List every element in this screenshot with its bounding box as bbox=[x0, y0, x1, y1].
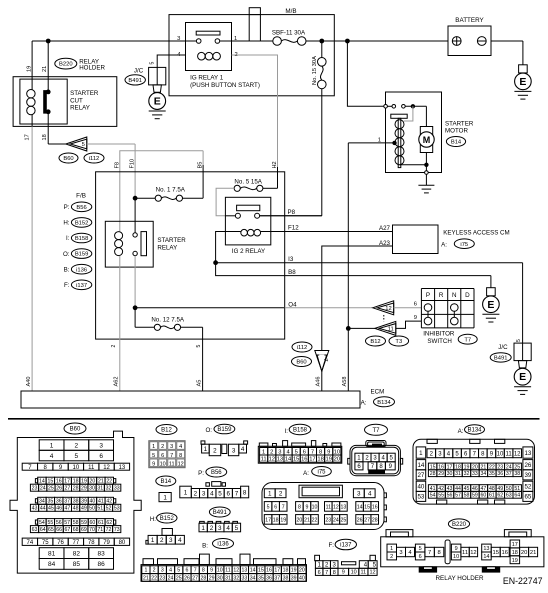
svg-text:54: 54 bbox=[39, 520, 45, 526]
svg-text:5: 5 bbox=[295, 449, 298, 455]
svg-text:63: 63 bbox=[32, 527, 38, 533]
svg-text:79: 79 bbox=[103, 540, 110, 546]
svg-text:40: 40 bbox=[417, 484, 424, 491]
svg-text:8: 8 bbox=[202, 568, 205, 574]
svg-text:58: 58 bbox=[464, 493, 470, 499]
svg-text:H2: H2 bbox=[272, 161, 278, 168]
svg-text:P8: P8 bbox=[288, 209, 296, 216]
svg-text:26: 26 bbox=[56, 486, 62, 492]
svg-text:5: 5 bbox=[516, 339, 522, 342]
svg-text:14: 14 bbox=[357, 504, 363, 510]
svg-text:64: 64 bbox=[40, 527, 46, 533]
svg-text:SWITCH: SWITCH bbox=[427, 338, 451, 345]
svg-text:10: 10 bbox=[217, 568, 223, 574]
svg-text:4: 4 bbox=[50, 453, 54, 460]
svg-text:19: 19 bbox=[26, 66, 32, 72]
svg-text:B152: B152 bbox=[75, 221, 89, 227]
svg-text:1: 1 bbox=[390, 546, 393, 552]
svg-text:R: R bbox=[439, 292, 444, 299]
svg-text:39: 39 bbox=[291, 575, 297, 581]
svg-text:ECM: ECM bbox=[371, 389, 385, 396]
svg-text:30: 30 bbox=[447, 471, 453, 477]
svg-text:4: 4 bbox=[169, 568, 172, 574]
svg-text:SBF-11 30A: SBF-11 30A bbox=[272, 29, 306, 36]
svg-text:6: 6 bbox=[419, 554, 422, 560]
svg-text:27: 27 bbox=[417, 472, 424, 479]
svg-text:26: 26 bbox=[524, 462, 531, 469]
svg-text:D: D bbox=[465, 292, 470, 299]
svg-text:14: 14 bbox=[250, 568, 256, 574]
svg-text:7: 7 bbox=[428, 550, 431, 556]
svg-text:B491: B491 bbox=[494, 356, 508, 362]
svg-text:2: 2 bbox=[111, 345, 117, 348]
svg-text:31: 31 bbox=[225, 575, 231, 581]
svg-text:19: 19 bbox=[81, 479, 87, 485]
svg-text:9: 9 bbox=[342, 570, 345, 576]
svg-text:2: 2 bbox=[210, 525, 214, 532]
svg-text:17: 17 bbox=[265, 517, 271, 523]
svg-text:J/C: J/C bbox=[134, 68, 144, 75]
svg-text:4: 4 bbox=[179, 444, 182, 450]
svg-text:H:: H: bbox=[63, 220, 69, 227]
svg-text:28: 28 bbox=[73, 486, 79, 492]
svg-text:26: 26 bbox=[357, 517, 363, 523]
svg-text:21: 21 bbox=[530, 550, 536, 556]
svg-text:2: 2 bbox=[160, 537, 164, 544]
svg-text:20: 20 bbox=[521, 550, 527, 556]
svg-text:F:: F: bbox=[329, 542, 335, 549]
svg-text:73: 73 bbox=[114, 527, 120, 533]
svg-text:12: 12 bbox=[369, 570, 375, 576]
svg-text:35: 35 bbox=[47, 499, 53, 505]
svg-text:58: 58 bbox=[73, 520, 79, 526]
svg-text:74: 74 bbox=[27, 540, 34, 546]
svg-text:No. 15 30A: No. 15 30A bbox=[312, 56, 318, 85]
svg-text:63: 63 bbox=[506, 493, 512, 499]
svg-text:B220: B220 bbox=[452, 522, 467, 528]
svg-text:13: 13 bbox=[277, 457, 283, 463]
svg-text:E: E bbox=[519, 76, 526, 88]
svg-text:17: 17 bbox=[512, 542, 518, 548]
svg-text:22: 22 bbox=[106, 479, 112, 485]
svg-text:EN-22747: EN-22747 bbox=[503, 576, 543, 586]
svg-text:8: 8 bbox=[333, 570, 336, 576]
svg-text:STARTER: STARTER bbox=[70, 90, 99, 97]
svg-text:1: 1 bbox=[262, 449, 265, 455]
svg-text:18: 18 bbox=[317, 457, 323, 463]
svg-text:55: 55 bbox=[438, 493, 444, 499]
svg-text:61: 61 bbox=[98, 520, 104, 526]
svg-text:1: 1 bbox=[419, 450, 423, 457]
svg-text:6: 6 bbox=[161, 453, 164, 459]
svg-text:18: 18 bbox=[273, 517, 279, 523]
svg-text:A46: A46 bbox=[316, 377, 322, 387]
svg-text:B14: B14 bbox=[160, 479, 171, 485]
svg-text:11: 11 bbox=[361, 570, 367, 576]
svg-text:HOLDER: HOLDER bbox=[79, 64, 105, 71]
svg-text:16: 16 bbox=[56, 479, 62, 485]
svg-text:56: 56 bbox=[447, 493, 453, 499]
svg-text:1: 1 bbox=[144, 568, 147, 574]
svg-text:B56: B56 bbox=[211, 470, 222, 476]
svg-text:66: 66 bbox=[56, 527, 62, 533]
svg-text:F/B: F/B bbox=[76, 192, 86, 199]
svg-text:i112: i112 bbox=[297, 345, 308, 351]
svg-text:25: 25 bbox=[48, 486, 54, 492]
svg-text:16: 16 bbox=[266, 568, 272, 574]
svg-text:9: 9 bbox=[327, 449, 330, 455]
svg-text:i112: i112 bbox=[89, 156, 100, 162]
svg-text:23: 23 bbox=[325, 517, 331, 523]
svg-text:No. 5 15A: No. 5 15A bbox=[234, 178, 262, 185]
svg-text:33: 33 bbox=[114, 486, 120, 492]
svg-text:F8: F8 bbox=[114, 162, 120, 169]
svg-text:65: 65 bbox=[48, 527, 54, 533]
svg-text:56: 56 bbox=[56, 520, 62, 526]
svg-text:69: 69 bbox=[81, 527, 87, 533]
svg-text:3: 3 bbox=[169, 537, 173, 544]
svg-text:27: 27 bbox=[364, 517, 370, 523]
svg-text:8: 8 bbox=[319, 449, 322, 455]
svg-text:A:: A: bbox=[303, 470, 309, 477]
svg-text:A:: A: bbox=[361, 400, 367, 407]
svg-text:19: 19 bbox=[512, 558, 518, 564]
svg-text:B:: B: bbox=[64, 266, 70, 273]
svg-text:78: 78 bbox=[88, 540, 95, 546]
svg-text:27: 27 bbox=[64, 486, 70, 492]
svg-text:32: 32 bbox=[233, 575, 239, 581]
svg-text:4: 4 bbox=[368, 491, 372, 498]
svg-text:7: 7 bbox=[325, 570, 328, 576]
svg-text:57: 57 bbox=[64, 520, 70, 526]
svg-text:RELAY HOLDER: RELAY HOLDER bbox=[435, 575, 484, 582]
svg-text:RELAY: RELAY bbox=[157, 244, 177, 251]
svg-text:11: 11 bbox=[261, 457, 267, 463]
svg-text:44: 44 bbox=[40, 506, 46, 512]
svg-text:14: 14 bbox=[417, 462, 424, 469]
svg-text:MOTOR: MOTOR bbox=[445, 128, 468, 135]
svg-text:12: 12 bbox=[470, 550, 476, 556]
svg-text:36: 36 bbox=[266, 575, 272, 581]
svg-text:H:: H: bbox=[150, 516, 156, 523]
svg-text:7: 7 bbox=[322, 358, 328, 361]
svg-text:13: 13 bbox=[341, 504, 347, 510]
svg-text:6: 6 bbox=[186, 568, 189, 574]
svg-text:2: 2 bbox=[270, 449, 273, 455]
svg-text:15: 15 bbox=[258, 568, 264, 574]
svg-text:9: 9 bbox=[306, 504, 309, 510]
svg-text:B134: B134 bbox=[377, 400, 391, 406]
svg-text:11: 11 bbox=[326, 504, 331, 510]
svg-text:7: 7 bbox=[311, 449, 314, 455]
svg-text:17: 17 bbox=[274, 568, 280, 574]
svg-text:No. 12 7.5A: No. 12 7.5A bbox=[151, 316, 185, 323]
svg-text:B:: B: bbox=[202, 542, 208, 549]
svg-text:29: 29 bbox=[438, 471, 444, 477]
svg-text:11: 11 bbox=[169, 461, 175, 467]
svg-text:22: 22 bbox=[312, 517, 318, 523]
svg-text:84: 84 bbox=[48, 561, 56, 568]
svg-text:I:: I: bbox=[285, 428, 289, 435]
svg-text:72: 72 bbox=[106, 527, 112, 533]
svg-text:20: 20 bbox=[296, 517, 302, 523]
svg-text:5: 5 bbox=[235, 525, 239, 532]
svg-text:59: 59 bbox=[472, 493, 478, 499]
svg-text:1: 1 bbox=[378, 138, 381, 144]
svg-text:B14: B14 bbox=[451, 140, 462, 146]
svg-text:31: 31 bbox=[455, 471, 461, 477]
svg-text:38: 38 bbox=[283, 575, 289, 581]
svg-text:B60: B60 bbox=[296, 360, 306, 366]
svg-text:3: 3 bbox=[278, 449, 281, 455]
svg-text:12: 12 bbox=[233, 568, 239, 574]
svg-text:10: 10 bbox=[453, 554, 459, 560]
svg-text:CUT: CUT bbox=[70, 97, 83, 104]
svg-text:82: 82 bbox=[73, 550, 81, 557]
svg-text:STARTER: STARTER bbox=[157, 237, 186, 244]
svg-text:1: 1 bbox=[234, 36, 237, 42]
svg-text:71: 71 bbox=[97, 527, 103, 533]
svg-text:37: 37 bbox=[274, 575, 280, 581]
svg-text:5: 5 bbox=[419, 546, 422, 552]
svg-text:15: 15 bbox=[364, 504, 370, 510]
svg-text:P:: P: bbox=[64, 204, 70, 211]
svg-text:8: 8 bbox=[437, 550, 440, 556]
svg-text:37: 37 bbox=[506, 471, 512, 477]
svg-text:13: 13 bbox=[242, 568, 248, 574]
svg-text:13: 13 bbox=[483, 546, 489, 552]
svg-text:24: 24 bbox=[168, 575, 174, 581]
svg-text:12: 12 bbox=[269, 457, 275, 463]
svg-text:60: 60 bbox=[90, 520, 96, 526]
svg-text:76: 76 bbox=[57, 540, 64, 546]
svg-text:9: 9 bbox=[152, 461, 155, 467]
svg-text:60: 60 bbox=[480, 493, 486, 499]
svg-text:B12: B12 bbox=[370, 339, 380, 345]
svg-text:26: 26 bbox=[184, 575, 190, 581]
svg-text:85: 85 bbox=[73, 561, 81, 568]
svg-text:1: 1 bbox=[268, 491, 272, 498]
svg-text:5: 5 bbox=[267, 504, 270, 510]
svg-text:4: 4 bbox=[210, 490, 214, 497]
svg-text:i75: i75 bbox=[317, 470, 326, 476]
svg-text:3: 3 bbox=[202, 490, 206, 497]
svg-text:13: 13 bbox=[119, 465, 126, 471]
svg-text:J/C: J/C bbox=[498, 344, 508, 351]
svg-text:3: 3 bbox=[232, 447, 236, 454]
svg-text:i137: i137 bbox=[340, 543, 352, 549]
svg-text:N: N bbox=[452, 292, 457, 299]
svg-text:20: 20 bbox=[90, 479, 96, 485]
svg-text:55: 55 bbox=[47, 520, 53, 526]
svg-text:23: 23 bbox=[159, 575, 165, 581]
svg-text:62: 62 bbox=[106, 520, 112, 526]
svg-text:IG RELAY 1: IG RELAY 1 bbox=[190, 74, 224, 81]
svg-text:17: 17 bbox=[24, 134, 30, 140]
svg-text:18: 18 bbox=[283, 568, 289, 574]
svg-text:10: 10 bbox=[351, 570, 357, 576]
svg-text:11: 11 bbox=[225, 568, 230, 574]
svg-text:I:: I: bbox=[66, 235, 70, 242]
svg-text:8: 8 bbox=[243, 490, 247, 497]
svg-text:No. 1 7.5A: No. 1 7.5A bbox=[156, 187, 186, 194]
svg-text:4: 4 bbox=[178, 537, 182, 544]
svg-text:43: 43 bbox=[32, 506, 38, 512]
svg-text:B152: B152 bbox=[160, 516, 175, 522]
svg-text:7: 7 bbox=[194, 568, 197, 574]
svg-text:1: 1 bbox=[151, 537, 155, 544]
svg-text:6: 6 bbox=[318, 570, 321, 576]
svg-text:52: 52 bbox=[524, 484, 531, 491]
svg-text:45: 45 bbox=[48, 506, 54, 512]
svg-text:7: 7 bbox=[282, 504, 285, 510]
svg-text:40: 40 bbox=[299, 575, 305, 581]
svg-text:B158: B158 bbox=[293, 428, 308, 434]
svg-text:9: 9 bbox=[455, 546, 458, 552]
svg-text:9: 9 bbox=[210, 568, 213, 574]
svg-text:E: E bbox=[519, 371, 526, 383]
svg-text:STARTER: STARTER bbox=[445, 120, 474, 127]
svg-text:IG 2 RELAY: IG 2 RELAY bbox=[232, 248, 265, 255]
svg-text:B491: B491 bbox=[213, 510, 228, 516]
svg-text:32: 32 bbox=[106, 486, 112, 492]
svg-text:36: 36 bbox=[56, 499, 62, 505]
svg-text:3: 3 bbox=[399, 550, 402, 556]
svg-text:30: 30 bbox=[217, 575, 223, 581]
svg-text:12: 12 bbox=[333, 504, 339, 510]
svg-text:70: 70 bbox=[89, 527, 95, 533]
svg-text:15: 15 bbox=[293, 457, 299, 463]
svg-text:KEYLESS ACCESS CM: KEYLESS ACCESS CM bbox=[443, 229, 509, 236]
svg-text:A40: A40 bbox=[26, 377, 32, 387]
svg-text:B60: B60 bbox=[63, 156, 73, 162]
svg-text:13: 13 bbox=[524, 450, 531, 457]
svg-text:3: 3 bbox=[99, 442, 103, 449]
svg-text:24: 24 bbox=[40, 486, 46, 492]
svg-text:28: 28 bbox=[200, 575, 206, 581]
svg-text:i75: i75 bbox=[460, 242, 468, 248]
svg-text:INHIBITOR: INHIBITOR bbox=[423, 331, 455, 338]
svg-text:61: 61 bbox=[489, 493, 495, 499]
svg-text:2: 2 bbox=[153, 568, 156, 574]
svg-text:2: 2 bbox=[194, 490, 198, 497]
svg-text:62: 62 bbox=[497, 493, 503, 499]
svg-text:29: 29 bbox=[81, 486, 87, 492]
svg-text:17: 17 bbox=[309, 457, 315, 463]
svg-text:38: 38 bbox=[73, 499, 79, 505]
svg-text:1: 1 bbox=[50, 442, 54, 449]
svg-text:23: 23 bbox=[32, 486, 38, 492]
svg-text:A27: A27 bbox=[379, 225, 391, 232]
svg-text:B220: B220 bbox=[59, 62, 73, 68]
svg-text:39: 39 bbox=[81, 499, 87, 505]
svg-text:P: P bbox=[426, 292, 430, 299]
svg-text:B491: B491 bbox=[128, 78, 142, 84]
svg-text:16: 16 bbox=[501, 550, 507, 556]
svg-text:1: 1 bbox=[204, 446, 208, 453]
svg-text:18: 18 bbox=[73, 479, 79, 485]
svg-text:B159: B159 bbox=[75, 252, 89, 258]
svg-text:5: 5 bbox=[152, 453, 155, 459]
svg-text:16: 16 bbox=[372, 504, 378, 510]
svg-text:64: 64 bbox=[514, 493, 520, 499]
svg-text:19: 19 bbox=[325, 457, 331, 463]
svg-text:1: 1 bbox=[152, 444, 155, 450]
svg-text:2: 2 bbox=[390, 554, 393, 560]
svg-text:F10: F10 bbox=[130, 159, 136, 169]
svg-text:P:: P: bbox=[198, 470, 204, 477]
svg-text:3: 3 bbox=[177, 36, 180, 42]
svg-text:19: 19 bbox=[291, 568, 297, 574]
svg-text:30: 30 bbox=[89, 486, 95, 492]
svg-text:6: 6 bbox=[303, 449, 306, 455]
svg-text:1: 1 bbox=[184, 490, 188, 497]
svg-text:25: 25 bbox=[176, 575, 182, 581]
svg-text:E: E bbox=[154, 96, 161, 108]
svg-text:2: 2 bbox=[161, 444, 164, 450]
svg-text:59: 59 bbox=[81, 520, 87, 526]
svg-text:50: 50 bbox=[89, 506, 95, 512]
svg-text:6: 6 bbox=[414, 302, 417, 308]
svg-text:2: 2 bbox=[213, 447, 217, 454]
svg-text:33: 33 bbox=[472, 471, 478, 477]
svg-text:5: 5 bbox=[150, 62, 156, 65]
svg-text:T3: T3 bbox=[395, 339, 402, 345]
svg-text:11: 11 bbox=[462, 550, 468, 556]
svg-text:1: 1 bbox=[201, 525, 205, 532]
svg-text:57: 57 bbox=[455, 493, 461, 499]
svg-text:6: 6 bbox=[227, 490, 231, 497]
svg-text:35: 35 bbox=[489, 471, 495, 477]
svg-text:3: 3 bbox=[161, 568, 164, 574]
svg-text:29: 29 bbox=[209, 575, 215, 581]
svg-text:86: 86 bbox=[98, 561, 106, 568]
svg-text:54: 54 bbox=[430, 493, 436, 499]
svg-text:20: 20 bbox=[334, 457, 340, 463]
svg-text:11: 11 bbox=[388, 327, 394, 333]
svg-text:38: 38 bbox=[514, 471, 520, 477]
svg-text:A:: A: bbox=[441, 241, 447, 248]
svg-text:3: 3 bbox=[170, 444, 173, 450]
svg-text:8: 8 bbox=[298, 504, 301, 510]
svg-text:34: 34 bbox=[250, 575, 256, 581]
svg-text:6: 6 bbox=[274, 504, 277, 510]
svg-text:52: 52 bbox=[106, 506, 112, 512]
svg-text:3: 3 bbox=[357, 491, 361, 498]
svg-text:15: 15 bbox=[47, 479, 53, 485]
svg-text:34: 34 bbox=[480, 471, 486, 477]
svg-text:18: 18 bbox=[512, 550, 518, 556]
svg-text:5: 5 bbox=[196, 345, 202, 348]
svg-text:7: 7 bbox=[170, 453, 173, 459]
svg-text:21: 21 bbox=[42, 66, 48, 72]
svg-text:14: 14 bbox=[483, 554, 489, 560]
svg-text:1: 1 bbox=[163, 494, 167, 501]
svg-text:10: 10 bbox=[334, 449, 340, 455]
svg-text:5: 5 bbox=[218, 490, 222, 497]
svg-text:51: 51 bbox=[97, 506, 103, 512]
svg-text:5: 5 bbox=[75, 453, 79, 460]
svg-text:RELAY: RELAY bbox=[70, 105, 90, 112]
svg-text:i136: i136 bbox=[76, 267, 87, 273]
svg-text:80: 80 bbox=[119, 540, 126, 546]
svg-text:75: 75 bbox=[42, 540, 49, 546]
svg-text:17: 17 bbox=[64, 479, 70, 485]
svg-text:40: 40 bbox=[90, 499, 96, 505]
svg-text:5: 5 bbox=[177, 568, 180, 574]
svg-text:21: 21 bbox=[304, 517, 310, 523]
svg-text:4: 4 bbox=[226, 525, 230, 532]
